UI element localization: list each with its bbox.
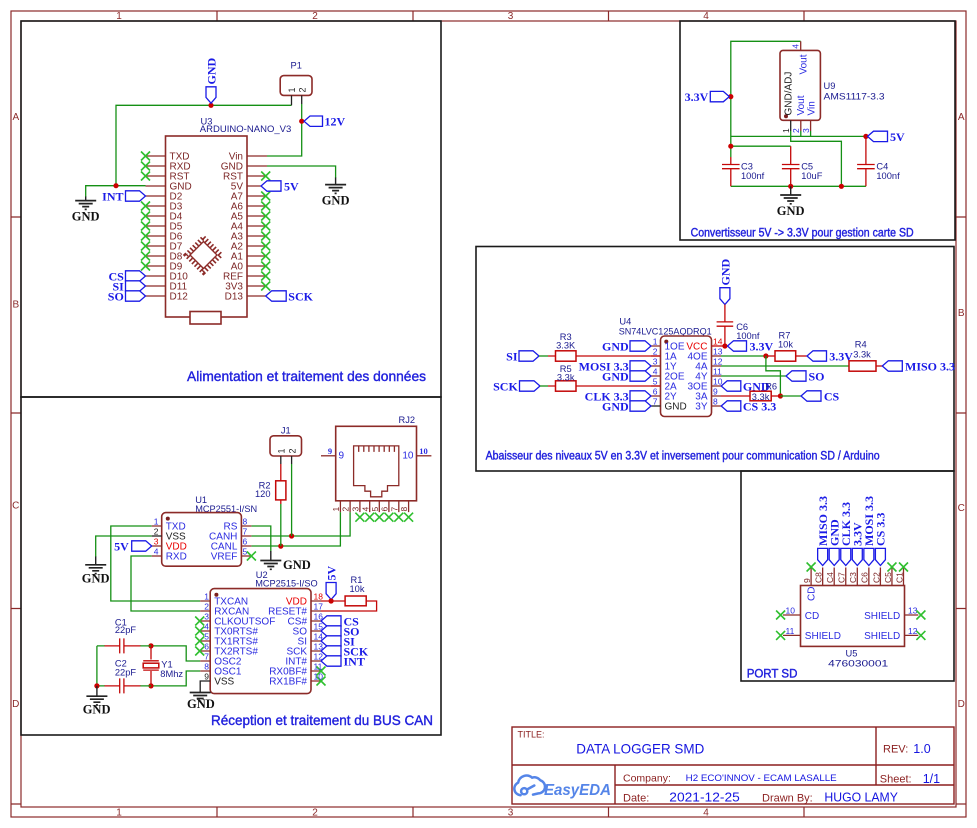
- wire CANH: [251, 512, 350, 536]
- svg-text:C: C: [958, 503, 965, 514]
- net flag GND pin7: [630, 401, 651, 411]
- svg-text:A: A: [12, 112, 19, 123]
- capacitor C4: [857, 165, 875, 169]
- svg-text:GND: GND: [602, 399, 629, 413]
- svg-text:U4: U4: [619, 317, 631, 327]
- svg-text:1/1: 1/1: [923, 772, 940, 786]
- wire CANL: [251, 512, 340, 546]
- U1 pin numbers right: [243, 517, 248, 557]
- svg-text:CD: CD: [807, 587, 818, 601]
- svg-text:100nf: 100nf: [741, 171, 765, 181]
- svg-text:2: 2: [298, 87, 308, 92]
- X pin11: [776, 631, 785, 640]
- svg-text:2: 2: [154, 527, 159, 537]
- svg-text:AMS1117-3.3: AMS1117-3.3: [824, 91, 885, 101]
- net flag MISO 3.3: [882, 361, 902, 371]
- svg-text:10: 10: [314, 672, 324, 682]
- R4 right lead: [876, 365, 882, 367]
- wire SCK to R5: [540, 385, 548, 387]
- svg-text:REV:: REV:: [883, 744, 908, 756]
- svg-text:2: 2: [341, 507, 351, 512]
- svg-text:H2 ECO'INNOV - ECAM LASALLE: H2 ECO'INNOV - ECAM LASALLE: [686, 773, 837, 784]
- svg-text:3: 3: [801, 128, 811, 133]
- RJ2 pin 9: [321, 455, 336, 457]
- C3 leads: [730, 157, 732, 186]
- svg-text:D: D: [958, 699, 965, 710]
- wire TXD to TXCAN: [111, 526, 200, 601]
- wire bottom GND rail: [731, 185, 866, 187]
- U2 body: [210, 589, 311, 694]
- svg-text:4: 4: [204, 622, 209, 632]
- R5 leads: [548, 385, 661, 387]
- U9 pin1 indicator: [784, 114, 788, 118]
- junction CANH J1: [289, 533, 294, 538]
- svg-text:C2: C2: [871, 572, 881, 583]
- svg-text:5: 5: [370, 507, 380, 512]
- U2 right pin numbers: [314, 592, 324, 682]
- svg-text:100nf: 100nf: [876, 171, 900, 181]
- U4 body: [661, 336, 712, 417]
- title block: [512, 727, 954, 804]
- net flag CS 3.3 vertical: [875, 548, 885, 565]
- junction 12V: [299, 119, 304, 124]
- wire left vert C1-C2: [96, 646, 98, 686]
- connector J1: [270, 436, 302, 456]
- svg-text:GND: GND: [82, 571, 110, 585]
- svg-text:Vin: Vin: [806, 101, 817, 115]
- svg-text:11: 11: [314, 662, 323, 672]
- resistor R2: [276, 481, 286, 500]
- svg-text:SCK: SCK: [288, 289, 313, 303]
- ground symbol right of U3: [325, 178, 346, 194]
- svg-text:2: 2: [287, 448, 297, 453]
- wire VDD to R1: [321, 600, 345, 602]
- svg-text:4: 4: [703, 808, 709, 819]
- svg-text:GND: GND: [602, 339, 629, 353]
- U2 left pins: [200, 601, 210, 671]
- svg-text:1: 1: [276, 448, 286, 453]
- U3 no-connect X right: [261, 172, 270, 291]
- svg-text:VREF: VREF: [211, 552, 238, 563]
- svg-text:GND: GND: [72, 210, 100, 224]
- svg-text:GND: GND: [718, 259, 732, 286]
- svg-text:1.0: 1.0: [913, 742, 930, 756]
- svg-text:10: 10: [402, 451, 414, 462]
- U1 pin1 indicator: [166, 517, 170, 521]
- svg-text:10: 10: [713, 377, 723, 387]
- wire pin12 MISO: [721, 365, 849, 367]
- svg-text:R6: R6: [765, 381, 777, 391]
- svg-text:120: 120: [255, 489, 271, 499]
- junction GND row: [113, 183, 118, 188]
- net flag INT U2: [321, 656, 341, 666]
- U3 right pin names: [221, 152, 244, 303]
- svg-text:1: 1: [287, 87, 297, 92]
- RJ2 no-connect X: [355, 513, 413, 522]
- section box 5: PORT SD: [741, 471, 954, 681]
- svg-text:4: 4: [154, 547, 159, 557]
- svg-text:5: 5: [653, 377, 658, 387]
- net flag GND vertical top: [206, 87, 216, 103]
- svg-text:DATA LOGGER SMD: DATA LOGGER SMD: [576, 741, 704, 757]
- svg-text:9: 9: [713, 387, 718, 397]
- U4 pin1 indicator: [664, 340, 668, 344]
- svg-text:SN74LVC125AQDRQ1: SN74LVC125AQDRQ1: [619, 327, 712, 337]
- svg-text:RJ2: RJ2: [399, 415, 416, 425]
- R2 top lead: [280, 464, 282, 481]
- frame row ticks left: [11, 217, 21, 804]
- wire GND-net top horizontal: [116, 105, 292, 185]
- C5 leads: [790, 146, 792, 186]
- net flag CLK 3.3 vertical: [841, 548, 851, 565]
- R6 right lead: [771, 395, 780, 397]
- junction 5V flag: [863, 134, 868, 139]
- net flag 5V right: [868, 131, 888, 141]
- svg-text:GND: GND: [205, 58, 219, 85]
- svg-text:C3: C3: [741, 161, 753, 171]
- net flag MISO 3.3 vertical: [818, 548, 828, 565]
- junction bottom rail left: [788, 184, 793, 189]
- net flag CS 3.3 pin8: [721, 401, 741, 411]
- C6 top lead: [724, 305, 726, 322]
- svg-text:3: 3: [204, 612, 209, 622]
- resistor R5: [556, 381, 577, 391]
- svg-text:4: 4: [653, 367, 658, 377]
- U1 body: [162, 513, 242, 567]
- svg-text:16: 16: [314, 612, 324, 622]
- capacitor C5: [782, 165, 800, 169]
- svg-text:17: 17: [314, 602, 324, 612]
- U3 left pins: [146, 156, 166, 296]
- svg-text:5V: 5V: [890, 130, 905, 144]
- X pinC1 top: [899, 563, 908, 572]
- svg-text:CS: CS: [824, 389, 840, 403]
- frame column ticks bottom: [217, 807, 804, 817]
- svg-text:5: 5: [204, 632, 209, 642]
- U2 pin1 indicator: [214, 593, 218, 597]
- U2 right pins: [311, 601, 321, 681]
- ground symbol U1 VSS: [85, 557, 106, 574]
- wire to CS flag: [780, 395, 801, 397]
- svg-text:HUGO LAMY: HUGO LAMY: [824, 790, 898, 804]
- svg-text:5V: 5V: [114, 539, 129, 553]
- RJ2 jack shape: [354, 446, 399, 497]
- svg-text:D: D: [12, 699, 19, 710]
- ground symbol RS: [260, 551, 281, 569]
- wire GND row to ground and pin: [86, 186, 146, 197]
- capacitor C1: [120, 638, 124, 653]
- ground symbol C2: [86, 686, 107, 705]
- junction VDD: [329, 598, 334, 603]
- svg-text:3Y: 3Y: [695, 402, 708, 413]
- svg-text:6: 6: [653, 387, 658, 397]
- svg-text:MISO 3.3: MISO 3.3: [905, 359, 955, 373]
- svg-text:1: 1: [204, 592, 209, 602]
- svg-text:3: 3: [154, 537, 159, 547]
- wire pin11 to SO: [721, 375, 786, 377]
- capacitor C6: [717, 322, 734, 326]
- net flag CS on D10: [126, 271, 146, 281]
- net flag SO S4: [786, 371, 806, 381]
- svg-text:7: 7: [389, 507, 399, 512]
- U4 pin 14: [712, 345, 725, 347]
- svg-text:11: 11: [713, 367, 722, 377]
- net flag GND above C6: [720, 288, 730, 305]
- junction R6 out: [778, 393, 783, 398]
- section box 3: Convertisseur: [680, 21, 955, 240]
- U9 pin 3: [810, 120, 812, 131]
- U9 pin 2 wire stub: [800, 131, 802, 136]
- RJ2 bottom pins: [340, 501, 408, 512]
- svg-text:6: 6: [243, 537, 248, 547]
- svg-text:D13: D13: [225, 292, 244, 303]
- capacitor C3: [722, 165, 740, 169]
- svg-text:7: 7: [243, 527, 248, 537]
- X pin9 top: [807, 563, 816, 572]
- resistor R3: [556, 351, 577, 361]
- svg-text:3: 3: [508, 808, 514, 819]
- svg-text:22pF: 22pF: [115, 667, 137, 677]
- junction pin13: [763, 353, 768, 358]
- svg-text:GND/ADJ: GND/ADJ: [784, 72, 795, 116]
- U5 right pins: [905, 615, 919, 635]
- junction 3.3V flag: [728, 94, 733, 99]
- U2 no-connect X right: [317, 667, 326, 686]
- svg-text:ARDUINO-NANO_V3: ARDUINO-NANO_V3: [200, 124, 291, 134]
- wire W1 5V rail: [731, 135, 866, 137]
- svg-text:SHIELD: SHIELD: [864, 611, 900, 622]
- svg-text:2021-12-25: 2021-12-25: [669, 790, 740, 804]
- EasyEDA logo cloud: [514, 776, 545, 796]
- svg-text:C5: C5: [883, 572, 893, 583]
- resistor R4: [849, 361, 876, 371]
- svg-text:C6: C6: [860, 572, 870, 583]
- resistor R7: [775, 351, 796, 361]
- svg-text:3: 3: [351, 507, 361, 512]
- wire jog pin13 net: [766, 356, 781, 396]
- wire RS to ground: [251, 526, 270, 552]
- svg-text:B: B: [958, 308, 965, 319]
- wire P1 pin2 to Vin: [267, 104, 302, 156]
- svg-text:1: 1: [653, 337, 658, 347]
- U3 left pin names: [170, 152, 192, 303]
- wire OSC2: [151, 646, 200, 661]
- U5 top pin numbers rotated: [802, 572, 904, 583]
- svg-text:C4: C4: [825, 572, 835, 583]
- svg-text:5V: 5V: [324, 566, 338, 581]
- svg-text:C4: C4: [876, 161, 888, 171]
- svg-text:GND: GND: [777, 204, 805, 218]
- wire pin13: [721, 355, 766, 357]
- svg-text:C3: C3: [848, 572, 858, 583]
- J1 pin 1: [280, 456, 282, 464]
- net flag 3.3V left: [710, 91, 729, 101]
- U3 body: [166, 136, 248, 317]
- RJ2 bottom pin numbers: [331, 507, 409, 512]
- U4 right pin numbers: [713, 337, 723, 407]
- junction pin14: [722, 343, 727, 348]
- svg-text:PORT SD: PORT SD: [747, 669, 798, 681]
- frame row ticks right: [956, 217, 966, 804]
- svg-text:7: 7: [204, 652, 209, 662]
- svg-text:GND: GND: [187, 697, 215, 711]
- svg-text:9: 9: [328, 446, 332, 456]
- J1 pin 2: [291, 456, 293, 464]
- svg-text:1: 1: [781, 128, 791, 133]
- svg-text:C5: C5: [801, 161, 813, 171]
- net flag 3.3V after R7: [807, 351, 827, 361]
- svg-text:12V: 12V: [325, 115, 346, 129]
- svg-text:6: 6: [204, 642, 209, 652]
- U1 left pins: [152, 526, 162, 546]
- U9 pin 1: [790, 120, 792, 131]
- svg-text:3.3K: 3.3K: [556, 341, 576, 351]
- net flag CS S4: [801, 391, 821, 401]
- crystal Y1: [143, 661, 159, 670]
- svg-text:Alimentation et traitement des: Alimentation et traitement des données: [187, 368, 426, 384]
- wire W3 3.3V to C5: [731, 145, 791, 147]
- resistor R1: [345, 596, 366, 606]
- net flag CS U2: [321, 616, 341, 626]
- svg-text:3.3k: 3.3k: [853, 349, 871, 359]
- R1 wire around to RESET#: [321, 601, 377, 611]
- R7 left lead: [766, 355, 775, 357]
- svg-text:8: 8: [399, 507, 409, 512]
- U2 left pin numbers: [204, 592, 209, 682]
- U3 chip diamond glyph: [186, 238, 221, 273]
- RJ2 body: [336, 426, 417, 501]
- U5 body: [801, 586, 905, 647]
- U1 right pin names: [209, 522, 238, 563]
- U3 right pins: [247, 156, 267, 296]
- U4 left pin numbers: [653, 337, 658, 407]
- svg-text:INT: INT: [344, 654, 365, 668]
- wire RXD to RXCAN: [131, 556, 200, 611]
- R3 leads: [548, 355, 661, 357]
- ground symbol S3: [780, 186, 801, 204]
- svg-text:Drawn By:: Drawn By:: [762, 792, 813, 804]
- net flag GND vertical U5: [829, 548, 839, 565]
- svg-text:C1: C1: [894, 572, 904, 583]
- X pinC5 top: [887, 563, 896, 572]
- U2 right pin names: [268, 597, 307, 688]
- wire OSC1: [151, 671, 200, 686]
- wire VSS to ground: [96, 536, 152, 557]
- svg-text:12: 12: [314, 652, 324, 662]
- svg-text:3.3k: 3.3k: [557, 372, 575, 382]
- svg-text:10: 10: [786, 606, 796, 616]
- svg-text:5: 5: [243, 547, 248, 557]
- svg-text:INT: INT: [102, 189, 123, 203]
- svg-text:Réception et traitement du BUS: Réception et traitement du BUS CAN: [211, 712, 433, 728]
- net flag SCK: [520, 381, 541, 391]
- net flag SO on D12: [126, 291, 146, 301]
- svg-text:6: 6: [380, 507, 390, 512]
- svg-text:10k: 10k: [778, 339, 793, 349]
- U9 pin 2: [800, 120, 802, 131]
- svg-text:10uF: 10uF: [801, 171, 823, 181]
- U4 right pins 13-8: [712, 356, 722, 406]
- R7 right lead: [796, 355, 807, 357]
- net flag 3.3V pin14: [728, 341, 747, 351]
- C2 leads: [105, 685, 141, 687]
- svg-text:Vout: Vout: [799, 54, 810, 74]
- svg-text:GND: GND: [83, 703, 111, 717]
- U1 right pins: [241, 526, 251, 556]
- ground symbol left of U3: [75, 197, 96, 210]
- U1 pin4: [152, 555, 162, 557]
- svg-text:SI: SI: [506, 349, 518, 363]
- svg-text:476030001: 476030001: [828, 659, 888, 669]
- svg-text:13: 13: [908, 606, 918, 616]
- svg-text:18: 18: [314, 592, 324, 602]
- svg-text:P1: P1: [291, 61, 302, 71]
- svg-text:11: 11: [786, 626, 795, 636]
- section box 2: BUS CAN: [21, 397, 441, 735]
- U2 no-connect X left: [195, 617, 204, 656]
- svg-text:R4: R4: [855, 340, 867, 350]
- svg-text:3.3V: 3.3V: [685, 90, 709, 104]
- wire 3.3V top from pin4: [731, 41, 801, 157]
- section box 4: Abaisseur: [476, 247, 954, 472]
- wire C1 row: [97, 645, 151, 647]
- svg-text:1: 1: [331, 507, 341, 512]
- net flag GND pin4: [630, 371, 651, 381]
- svg-text:3.3V: 3.3V: [750, 339, 774, 353]
- C4 leads: [865, 136, 867, 186]
- U9 pin 4: [800, 41, 802, 50]
- net flag 5V on 5V pin: [261, 181, 281, 191]
- junction W3: [728, 144, 733, 149]
- junction bottom rail right: [839, 184, 844, 189]
- svg-text:2: 2: [312, 808, 318, 819]
- svg-text:3: 3: [508, 11, 514, 22]
- svg-text:Abaisseur des niveaux 5V en 3.: Abaisseur des niveaux 5V en 3.3V et inve…: [486, 451, 880, 463]
- svg-text:Convertisseur 5V -> 3.3V pour: Convertisseur 5V -> 3.3V pour gestion ca…: [691, 228, 914, 240]
- svg-text:SO: SO: [809, 369, 825, 383]
- svg-text:SHIELD: SHIELD: [805, 631, 841, 642]
- svg-text:2: 2: [204, 602, 209, 612]
- U4 pin 7: [651, 405, 661, 407]
- svg-text:SCK: SCK: [493, 379, 518, 393]
- svg-text:9: 9: [204, 672, 209, 682]
- svg-text:13: 13: [314, 642, 324, 652]
- svg-text:10: 10: [419, 446, 428, 456]
- P1 pin 2: [301, 95, 303, 104]
- net flag 5V vertical U2: [326, 583, 336, 600]
- net flag CLK 3.3 pin6: [630, 391, 651, 401]
- svg-text:J1: J1: [281, 426, 291, 436]
- svg-text:CS 3.3: CS 3.3: [743, 399, 776, 413]
- svg-text:TITLE:: TITLE:: [518, 730, 545, 740]
- svg-text:22pF: 22pF: [115, 625, 137, 635]
- svg-text:2: 2: [653, 347, 658, 357]
- svg-text:GND: GND: [283, 558, 311, 572]
- svg-text:C: C: [12, 501, 19, 512]
- wire W2 pin1 to bottom: [791, 131, 842, 186]
- svg-text:9: 9: [339, 451, 345, 462]
- svg-text:MCP2515-I/SO: MCP2515-I/SO: [255, 579, 318, 589]
- C1 leads: [105, 645, 141, 647]
- svg-text:12: 12: [713, 357, 723, 367]
- junction top GND flag: [208, 103, 213, 108]
- crystal Y1 top lead: [150, 646, 152, 660]
- svg-text:13: 13: [713, 347, 723, 357]
- svg-text:5V: 5V: [284, 179, 299, 193]
- X VREF: [247, 552, 256, 561]
- svg-text:D12: D12: [170, 292, 189, 303]
- svg-text:Company:: Company:: [623, 773, 671, 785]
